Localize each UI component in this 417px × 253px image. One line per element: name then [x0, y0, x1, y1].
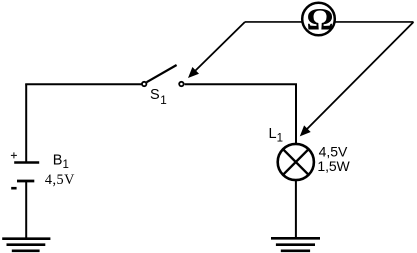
switch S1 right contact	[179, 82, 183, 86]
svg-text:Ω: Ω	[306, 2, 333, 36]
ground (left) bar 2	[7, 243, 46, 246]
lamp L1 circle	[278, 144, 314, 180]
wire meter right horizontal	[334, 21, 414, 23]
battery plus sign	[11, 152, 17, 158]
battery B1 negative plate	[17, 180, 34, 183]
arrowhead at switch	[188, 67, 199, 78]
wire switch right contact to corner	[185, 83, 297, 85]
probe line to switch	[196, 22, 246, 71]
wire right vertical (corner down to lamp)	[295, 84, 297, 144]
arrowhead at lamp	[300, 125, 311, 136]
wire left vertical (battery top to main row)	[25, 84, 27, 161]
wire meter left horizontal	[245, 21, 303, 23]
probe line to lamp	[307, 22, 414, 129]
ground (right) bar 1	[271, 237, 320, 240]
ground (left) bar 1	[2, 237, 50, 240]
wire top-left horizontal (corner to switch left contact)	[25, 83, 141, 85]
lamp X stroke 2	[283, 149, 309, 175]
battery minus sign	[11, 187, 16, 190]
svg-text:1,5W: 1,5W	[317, 158, 350, 174]
wire lamp to ground	[295, 180, 297, 239]
switch S1 left contact	[142, 82, 146, 86]
battery B1 positive plate	[14, 161, 39, 164]
ground (left) bar 3	[12, 250, 40, 253]
svg-text:4,5V: 4,5V	[45, 172, 75, 188]
ground (right) bar 3	[281, 250, 310, 253]
ohmmeter circle	[302, 3, 335, 36]
lamp X stroke 1	[283, 149, 309, 175]
ground (right) bar 2	[276, 243, 315, 246]
switch S1 blade	[147, 65, 177, 82]
wire battery negative to ground	[25, 181, 27, 239]
